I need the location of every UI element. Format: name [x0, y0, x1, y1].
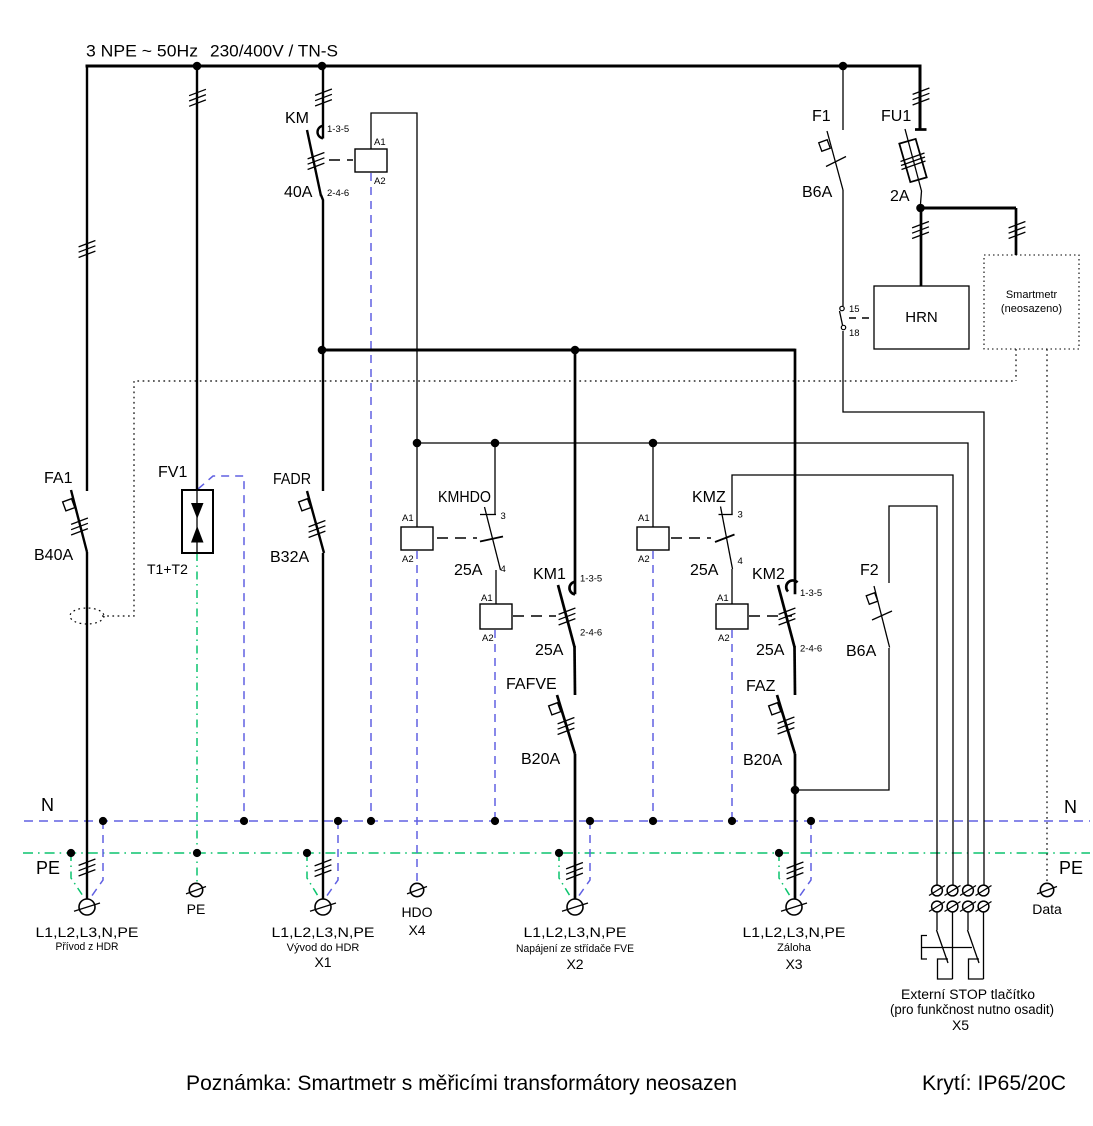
- contact KMZ blade: [721, 507, 733, 570]
- 3-phase mark above X2 terminal: [566, 863, 583, 880]
- svg-text:FAFVE: FAFVE: [506, 676, 557, 693]
- svg-text:FV1: FV1: [158, 464, 187, 481]
- svg-text:Vývod do HDR: Vývod do HDR: [287, 942, 360, 954]
- wire X1 column lower to terminal: [322, 553, 324, 899]
- 3-phase mark on FU1 column: [913, 88, 930, 105]
- wire KMZ coil A1 riser: [652, 443, 654, 527]
- svg-text:A2: A2: [402, 554, 414, 565]
- svg-text:PE: PE: [187, 901, 206, 917]
- svg-text:Napájení ze střídače FVE: Napájení ze střídače FVE: [516, 943, 634, 955]
- contact STOP 2 blade: [968, 930, 980, 963]
- svg-text:A2: A2: [374, 176, 386, 187]
- contact STOP 2 fixed hook: [969, 959, 984, 979]
- svg-text:X5: X5: [952, 1017, 969, 1033]
- wire N drop to X2 terminal: [578, 821, 590, 897]
- wire X3 column lower to terminal: [794, 754, 797, 899]
- wire KMZ linkage dashes: [671, 537, 711, 539]
- wire X3 column upper: [794, 349, 797, 595]
- wire X3 column to FAZ: [793, 646, 796, 695]
- 3-phase mark on feeder column: [79, 241, 96, 258]
- wire N drop FV1 link: [198, 476, 244, 820]
- wire dotted Smartmetr drop left: [1015, 349, 1017, 381]
- wire KMZ contact to KM2 coil: [731, 569, 733, 604]
- node junction dot control bus/KMHDO contact: [491, 439, 500, 448]
- node junction dot control bus/KMHDO coil: [413, 439, 422, 448]
- wire N drop to X-Privod terminal: [91, 821, 103, 897]
- node junction dot 2A output: [916, 204, 925, 213]
- wire HRN supply: [920, 208, 923, 286]
- svg-text:Data: Data: [1032, 901, 1062, 917]
- 3-phase mark on FAFVE blade: [558, 718, 575, 735]
- button STOP actuator linkage: [922, 947, 973, 949]
- terminal X-Privod circle: [74, 899, 100, 915]
- wire X2 column to FAFVE: [573, 646, 576, 695]
- contactor KM blade: [307, 130, 321, 196]
- terminal X5 row2 circles: [929, 901, 992, 912]
- breaker F1 actuator square: [819, 140, 831, 152]
- contact KMHDO blade: [485, 507, 501, 570]
- svg-text:A1: A1: [402, 513, 414, 524]
- 3-phase mark across FU1: [901, 153, 926, 170]
- node junction dot bus/F1 column: [839, 62, 848, 71]
- svg-text:3: 3: [501, 511, 506, 522]
- wire STOP contact 1 moving wire: [936, 912, 938, 930]
- svg-text:X2: X2: [566, 956, 583, 972]
- svg-text:T1+T2: T1+T2: [147, 561, 188, 577]
- svg-text:3: 3: [738, 510, 743, 521]
- svg-text:25A: 25A: [535, 642, 564, 659]
- svg-text:L1,L2,L3,N,PE: L1,L2,L3,N,PE: [524, 924, 627, 940]
- 3-phase mark above X3 terminal: [787, 862, 804, 879]
- svg-text:1-3-5: 1-3-5: [327, 124, 349, 135]
- svg-text:B20A: B20A: [743, 752, 782, 769]
- svg-text:FU1: FU1: [881, 108, 911, 125]
- wire feeder column from HDR (FA1) upper part: [86, 65, 88, 491]
- 3-phase mark on FADR blade: [309, 521, 326, 538]
- coil KM2 box A1/A2: [716, 604, 748, 629]
- wire KMHDO linkage dashes: [437, 537, 477, 539]
- surge arrester FV1 box: [182, 490, 213, 553]
- wire FV1 column: [196, 65, 198, 490]
- svg-text:HRN: HRN: [905, 309, 938, 326]
- svg-text:HDO: HDO: [401, 904, 432, 920]
- relay HRN box: [874, 286, 969, 349]
- node N bus junction dots: [99, 817, 815, 825]
- wire KMZ contact-3 loop to STOP chain: [732, 475, 953, 886]
- svg-text:1-3-5: 1-3-5: [800, 588, 822, 599]
- button STOP actuator bracket: [922, 936, 928, 960]
- contactor KM1 fixed contact arc: [569, 582, 575, 595]
- svg-text:40A: 40A: [284, 184, 313, 201]
- 1-phase x3 mark on HRN supply: [912, 222, 929, 239]
- contact KMHDO wire from control bus: [494, 443, 496, 514]
- breaker F1 blade: [827, 131, 843, 190]
- svg-text:B32A: B32A: [270, 549, 309, 566]
- node junction dot sub-bus/X2 column: [571, 346, 580, 355]
- wire HDO drop from KMHDO coil A2 to X4: [416, 551, 418, 882]
- wire F2 top loop to STOP chain: [889, 506, 937, 886]
- svg-text:B20A: B20A: [521, 751, 560, 768]
- 3-phase mark on KM blade: [308, 153, 325, 170]
- wire main supply bus 230/400V with FU1 corner: [86, 66, 921, 129]
- svg-text:KM2: KM2: [752, 566, 785, 583]
- wire dotted Smartmetr to Data terminal: [1046, 349, 1048, 882]
- svg-text:1-3-5: 1-3-5: [580, 574, 602, 585]
- wire KMHDO coil A1 riser: [416, 443, 418, 527]
- svg-text:N: N: [41, 795, 54, 815]
- wire Smartmetr supply: [1015, 208, 1018, 255]
- wire PE drop to X2 terminal: [559, 853, 570, 896]
- wire N drop from KMZ coil A2: [652, 551, 654, 820]
- contact HRN changeover blade: [840, 311, 843, 325]
- 3-phase mark above X1 terminal: [315, 860, 332, 877]
- contact STOP 1 blade: [937, 930, 949, 963]
- coil KMHDO box A1/A2: [401, 527, 433, 550]
- 1-phase mark on F2 blade: [872, 611, 892, 620]
- breaker FAZ actuator square: [769, 703, 781, 715]
- breaker F2 actuator square: [866, 593, 878, 605]
- 1-phase mark on F1 blade: [826, 157, 846, 167]
- svg-text:N: N: [1064, 797, 1077, 817]
- wire STOP contact 2 fixed wire: [983, 912, 985, 979]
- svg-text:A2: A2: [482, 633, 494, 644]
- svg-text:X3: X3: [785, 956, 802, 972]
- svg-text:Poznámka: Smartmetr s měřicími: Poznámka: Smartmetr s měřicími transform…: [186, 1072, 737, 1095]
- surge arrester FV1 arrow down: [191, 503, 204, 519]
- svg-text:4: 4: [738, 556, 743, 567]
- svg-text:25A: 25A: [690, 562, 719, 579]
- coil KM box A1/A2: [355, 149, 387, 172]
- svg-text:PE: PE: [1059, 858, 1083, 878]
- surge arrester FV1 arrow up: [191, 526, 204, 543]
- current transformer CT dotted ellipse on FA1 feeder: [70, 608, 104, 624]
- node N bus: [24, 820, 1090, 822]
- wire PE drop from FV1 T1+T2 to PE terminal: [196, 553, 198, 883]
- wire KM column from blade to sub-bus: [321, 195, 323, 491]
- wire N drop from KM1 coil A2: [494, 630, 496, 820]
- svg-text:KM: KM: [285, 110, 309, 127]
- terminal X3 circle: [781, 899, 807, 915]
- wire dotted metering link from CT to Smartmetr: [102, 381, 1016, 616]
- svg-text:2-4-6: 2-4-6: [800, 644, 822, 655]
- svg-text:B40A: B40A: [34, 547, 73, 564]
- wire KM coil A1 to control bus: [371, 113, 417, 443]
- fuse FU1 T-bar: [915, 128, 927, 131]
- node PE bus junction dots: [67, 849, 783, 857]
- breaker FAFVE blade: [557, 695, 575, 754]
- 1-phase mark on KMZ blade: [715, 535, 735, 543]
- terminal X4 HDO circle: [407, 883, 427, 896]
- wire KM1 linkage dashes: [513, 615, 556, 617]
- svg-text:L1,L2,L3,N,PE: L1,L2,L3,N,PE: [36, 924, 139, 940]
- contactor KM1 blade: [558, 585, 575, 647]
- terminal PE circle: [186, 883, 206, 896]
- wire PE drop to X1 terminal: [307, 853, 318, 896]
- wire control bus: [417, 443, 968, 886]
- wire F1 to HRN contact: [842, 190, 844, 306]
- svg-text:FADR: FADR: [273, 471, 311, 488]
- wire N drop to X3 terminal: [799, 821, 811, 897]
- wire X2 column upper: [574, 350, 577, 594]
- 1-phase mark on KMHDO blade: [480, 537, 503, 542]
- svg-text:Záloha: Záloha: [777, 942, 812, 954]
- wire HRN contact linkage dashes: [849, 317, 872, 319]
- svg-text:Externí STOP tlačítko: Externí STOP tlačítko: [901, 987, 1035, 1002]
- svg-text:A1: A1: [481, 593, 493, 604]
- 3-phase mark on KM2 blade: [779, 608, 796, 625]
- svg-text:15: 15: [849, 304, 860, 315]
- wire STOP contact 2 moving wire: [967, 912, 969, 930]
- svg-text:A1: A1: [374, 137, 386, 148]
- 3-phase mark on FAZ blade: [778, 717, 795, 734]
- svg-text:230/400V / TN-S: 230/400V / TN-S: [210, 42, 338, 61]
- breaker FADR actuator square: [299, 499, 311, 511]
- node junction dot F2/X3 column: [791, 786, 800, 795]
- wire output sub-bus: [322, 349, 795, 352]
- wire N drop from KM2 coil A2: [731, 630, 733, 820]
- breaker FA1 blade: [71, 490, 87, 552]
- svg-text:KMZ: KMZ: [692, 489, 726, 506]
- breaker F2 blade: [874, 586, 890, 648]
- node PE bus: [23, 852, 1090, 854]
- svg-text:(neosazeno): (neosazeno): [1001, 303, 1062, 315]
- terminal X2 circle: [562, 899, 588, 915]
- svg-text:KMHDO: KMHDO: [438, 489, 491, 506]
- terminal X1 circle: [310, 899, 336, 915]
- contact KMHDO fixed tick: [480, 514, 496, 516]
- svg-text:Smartmetr: Smartmetr: [1006, 289, 1058, 301]
- contact KMZ fixed tick: [719, 514, 733, 516]
- wire N drop to X1 terminal: [326, 821, 338, 897]
- contactor KM fixed contact arc: [317, 126, 323, 139]
- node junction dot bus/FV1 column: [193, 62, 202, 71]
- node junction dot sub-bus/X1 column: [318, 346, 327, 355]
- fuse FU1 body: [899, 139, 926, 182]
- contactor KM2 blade: [778, 585, 795, 647]
- wire F1 lower run to STOP chain: [843, 331, 984, 886]
- svg-text:2-4-6: 2-4-6: [327, 188, 349, 199]
- wire 2A distribution to Smartmetr branch: [921, 207, 1017, 210]
- terminal Data circle: [1037, 883, 1057, 896]
- svg-text:18: 18: [849, 328, 860, 339]
- svg-text:25A: 25A: [756, 642, 785, 659]
- contact HRN 15 terminal circle: [840, 306, 844, 310]
- terminal X5 row1 circles: [929, 885, 992, 896]
- 3-phase mark above Privod terminal: [79, 859, 96, 876]
- svg-text:B6A: B6A: [846, 643, 877, 660]
- wire KM2 linkage dashes: [749, 615, 792, 617]
- svg-text:L1,L2,L3,N,PE: L1,L2,L3,N,PE: [272, 924, 375, 940]
- wire STOP contact 1 fixed wire: [952, 912, 954, 979]
- breaker FAZ blade: [777, 695, 795, 754]
- node junction dot bus/KM column: [318, 62, 327, 71]
- wire X2 column lower to terminal: [574, 754, 577, 899]
- svg-text:A1: A1: [717, 593, 729, 604]
- svg-text:(pro funkčnost nutno osadit): (pro funkčnost nutno osadit): [890, 1002, 1054, 1017]
- breaker FAFVE actuator square: [549, 703, 561, 715]
- svg-text:A1: A1: [638, 513, 650, 524]
- svg-text:2A: 2A: [890, 188, 910, 205]
- breaker FA1 actuator square: [63, 499, 75, 511]
- fuse FU1 through-wire: [905, 129, 922, 204]
- svg-text:L1,L2,L3,N,PE: L1,L2,L3,N,PE: [743, 924, 846, 940]
- contact STOP 1 fixed hook: [938, 959, 953, 979]
- svg-text:KM1: KM1: [533, 566, 566, 583]
- svg-text:3 NPE ~ 50Hz: 3 NPE ~ 50Hz: [86, 42, 198, 61]
- svg-text:F1: F1: [812, 108, 831, 125]
- svg-text:PE: PE: [36, 858, 60, 878]
- svg-text:FA1: FA1: [44, 470, 73, 487]
- surge arrester FV1 internal line: [196, 490, 198, 553]
- box Smartmetr (dotted, not fitted): [984, 255, 1079, 349]
- node junction dot control bus/KMZ coil: [649, 439, 658, 448]
- svg-text:X4: X4: [408, 922, 425, 938]
- 3-phase mark on KM1 blade: [559, 608, 576, 625]
- svg-text:4: 4: [501, 564, 506, 575]
- svg-text:FAZ: FAZ: [746, 678, 776, 695]
- svg-text:A2: A2: [718, 633, 730, 644]
- coil KM1 box A1/A2: [480, 604, 512, 629]
- svg-text:F2: F2: [860, 562, 879, 579]
- svg-text:Přívod z HDR: Přívod z HDR: [56, 941, 119, 953]
- wire PE drop to X-Privod terminal: [71, 853, 83, 896]
- svg-text:X1: X1: [314, 954, 331, 970]
- 3-phase mark on FA1 blade: [71, 518, 88, 535]
- coil KMZ box A1/A2: [637, 527, 669, 550]
- 3-phase mark on Smartmetr supply: [1009, 222, 1026, 239]
- wire KMHDO contact to KM1 coil: [495, 570, 497, 604]
- breaker FADR blade: [307, 491, 324, 553]
- 3-phase mark on KM column: [315, 89, 332, 106]
- wire N drop from KM coil A2: [370, 173, 372, 820]
- svg-text:2-4-6: 2-4-6: [580, 628, 602, 639]
- svg-text:A2: A2: [638, 554, 650, 565]
- contact HRN 18 terminal circle: [841, 325, 845, 329]
- wire KM column upper: [322, 65, 324, 139]
- wire PE drop to X3 terminal: [779, 853, 790, 896]
- wire F1 branch upper: [842, 66, 844, 130]
- svg-text:Krytí: IP65/20C: Krytí: IP65/20C: [922, 1072, 1066, 1095]
- svg-text:25A: 25A: [454, 562, 483, 579]
- wire KM linkage dashes to coil: [329, 159, 353, 161]
- wire feeder column lower part to terminal: [86, 552, 88, 899]
- contactor KM2 fixed contact arc: [786, 580, 797, 591]
- 3-phase mark on FV1 column: [189, 89, 206, 106]
- wire F2 lower to X3 junction: [795, 648, 889, 790]
- svg-text:B6A: B6A: [802, 184, 833, 201]
